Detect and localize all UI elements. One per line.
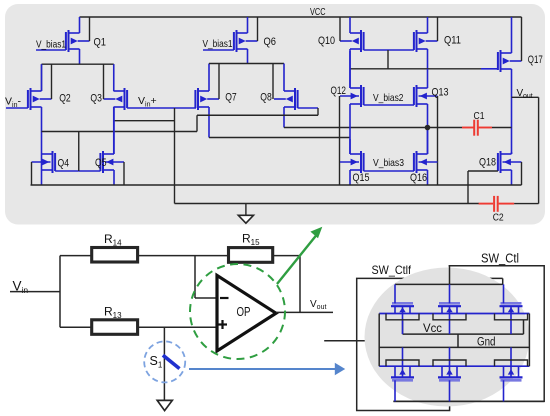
svg-text:C1: C1 xyxy=(474,110,485,122)
svg-text:SW_Ctlf: SW_Ctlf xyxy=(372,263,412,277)
svg-text:S1: S1 xyxy=(150,354,163,370)
svg-text:Q10: Q10 xyxy=(318,35,335,47)
svg-text:V_bias3: V_bias3 xyxy=(373,157,404,169)
svg-text:out: out xyxy=(523,93,533,100)
svg-text:Q13: Q13 xyxy=(432,87,449,99)
svg-text:Gnd: Gnd xyxy=(477,337,496,349)
svg-text:Q18: Q18 xyxy=(479,157,496,169)
svg-text:Q12: Q12 xyxy=(331,85,347,97)
svg-text:Q6: Q6 xyxy=(264,36,277,48)
svg-text:V_bias1: V_bias1 xyxy=(36,39,66,51)
svg-text:V_bias2: V_bias2 xyxy=(373,92,404,104)
svg-text:C2: C2 xyxy=(493,211,504,223)
svg-text:Q8: Q8 xyxy=(260,92,272,104)
svg-text:R13: R13 xyxy=(104,305,122,321)
svg-text:Q3: Q3 xyxy=(90,92,102,104)
svg-text:Vcc: Vcc xyxy=(423,323,442,335)
svg-text:Q17: Q17 xyxy=(528,54,543,66)
svg-text:Q4: Q4 xyxy=(58,158,70,170)
svg-text:Q15: Q15 xyxy=(353,172,370,184)
svg-text:VCC: VCC xyxy=(310,7,326,18)
svg-text:V_bias1: V_bias1 xyxy=(203,38,233,50)
svg-text:Q2: Q2 xyxy=(59,92,70,104)
svg-text:Vin: Vin xyxy=(13,279,29,296)
svg-text:Q16: Q16 xyxy=(410,172,427,184)
svg-text:SW_Ctl: SW_Ctl xyxy=(481,252,519,266)
svg-text:Q11: Q11 xyxy=(444,35,461,47)
svg-text:Q7: Q7 xyxy=(225,92,237,104)
svg-text:Q5: Q5 xyxy=(95,157,107,169)
svg-text:R15: R15 xyxy=(242,232,260,248)
svg-text:Vout: Vout xyxy=(310,299,326,311)
svg-text:Q1: Q1 xyxy=(94,37,107,49)
svg-text:R14: R14 xyxy=(104,232,122,248)
svg-text:OP: OP xyxy=(237,305,251,319)
